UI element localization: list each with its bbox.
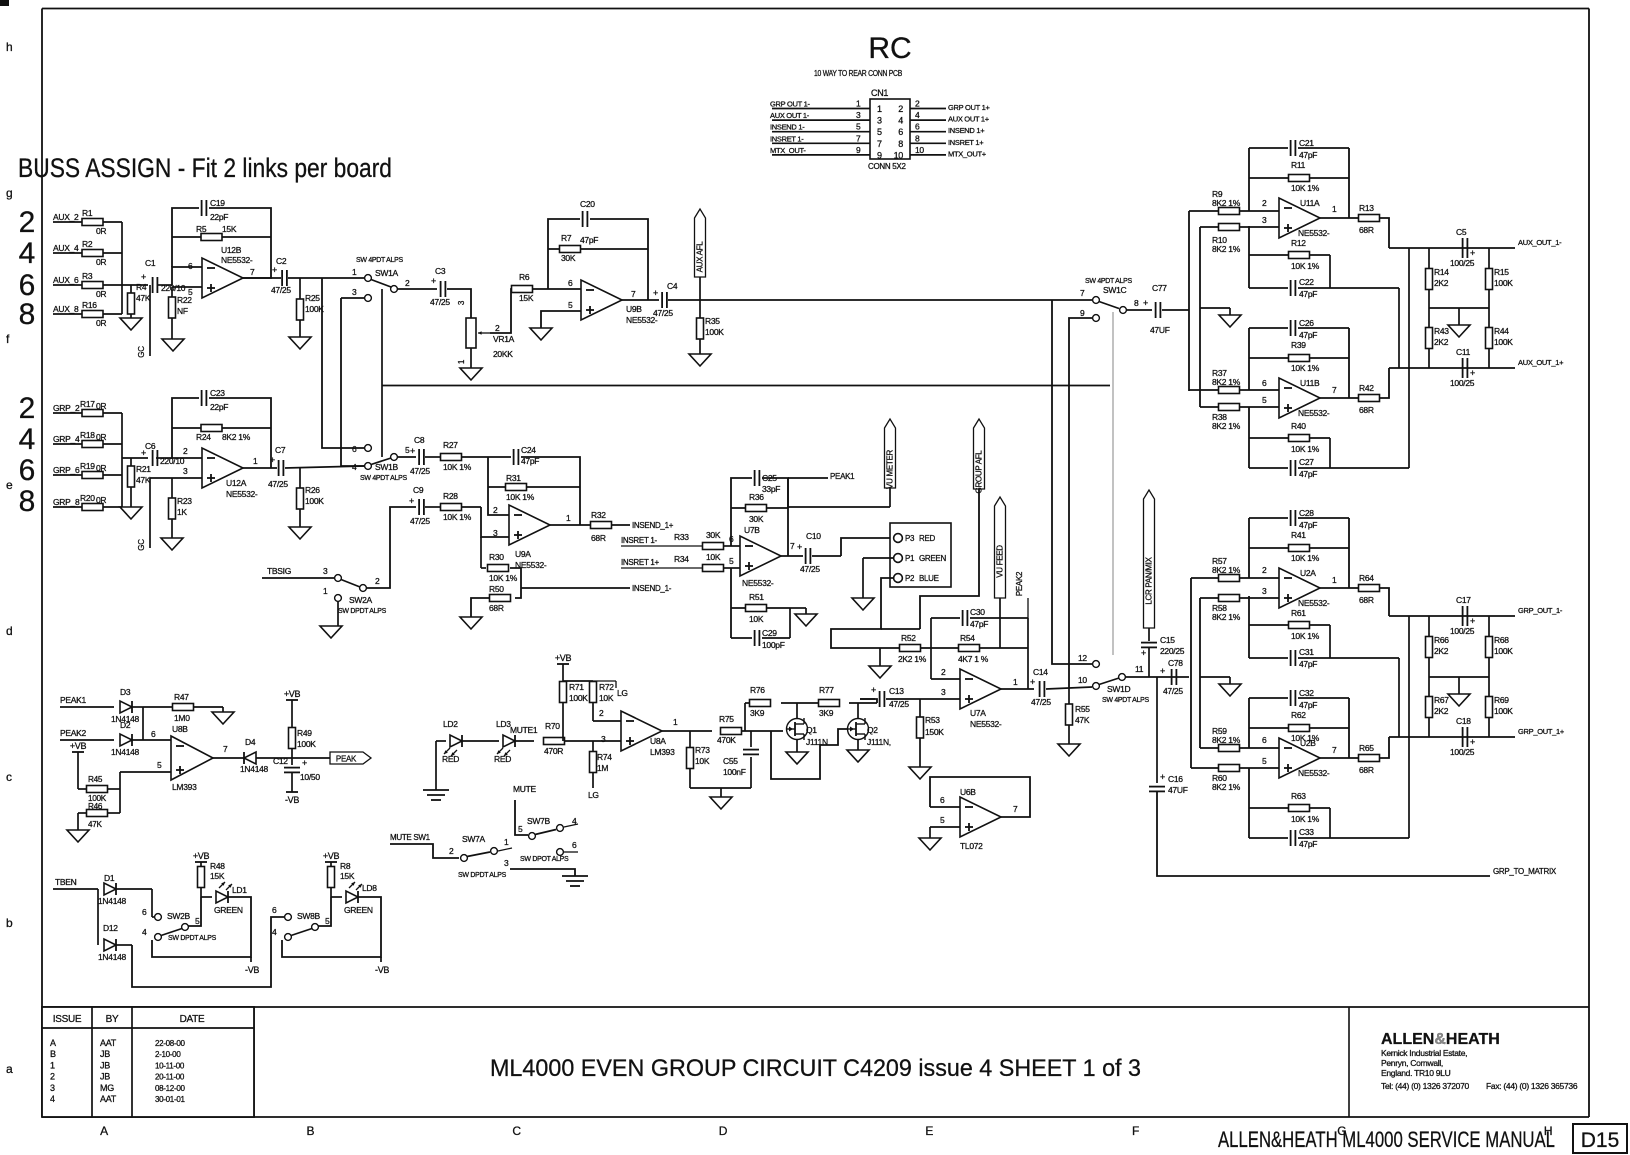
resistor R66: [1426, 616, 1450, 677]
svg-text:U8B: U8B: [172, 724, 188, 734]
resistor R15: [1486, 248, 1514, 308]
svg-text:R55: R55: [1075, 704, 1090, 714]
svg-text:GREEN: GREEN: [214, 905, 243, 915]
svg-text:+: +: [1160, 666, 1165, 676]
svg-text:R32: R32: [591, 510, 606, 520]
wire U8B output: [212, 757, 244, 759]
svg-text:3: 3: [601, 734, 606, 744]
svg-text:3: 3: [457, 300, 466, 305]
svg-text:D: D: [719, 1124, 728, 1138]
title RC: [868, 32, 911, 65]
svg-text:3: 3: [183, 466, 188, 476]
svg-text:2: 2: [183, 446, 188, 456]
resistor R73: [687, 731, 711, 788]
op-amp U8B: [171, 724, 228, 792]
svg-text:6: 6: [188, 261, 193, 271]
svg-text:R26: R26: [305, 485, 320, 495]
svg-text:47/25: 47/25: [271, 285, 291, 295]
GRP bus digits 2 4 6 8: [19, 392, 36, 518]
svg-text:NE5532-: NE5532-: [1298, 768, 1330, 778]
svg-text:R75: R75: [719, 714, 734, 724]
svg-text:100pF: 100pF: [762, 640, 785, 650]
CN1 pin 2 wire: [910, 99, 990, 113]
svg-text:1N4148: 1N4148: [98, 952, 127, 962]
svg-text:Q2: Q2: [867, 725, 878, 735]
svg-text:68R: 68R: [591, 533, 606, 543]
svg-text:2K2: 2K2: [1434, 337, 1449, 347]
issue table: [42, 1007, 254, 1117]
grid letters left: [6, 40, 13, 1076]
svg-text:MG: MG: [100, 1083, 114, 1093]
svg-text:TBSIG: TBSIG: [267, 566, 291, 576]
svg-text:LCR PAN/MIX: LCR PAN/MIX: [1145, 556, 1154, 604]
wire pin3 node to R30: [481, 537, 486, 568]
resistor R45: [78, 775, 120, 803]
wire GROUP AFL down: [920, 489, 979, 629]
svg-text:P2: P2: [905, 574, 915, 583]
svg-text:6: 6: [19, 454, 36, 487]
svg-text:11: 11: [1135, 664, 1144, 674]
resistor R13: [1359, 203, 1380, 235]
CN1 footprint label: [868, 162, 906, 171]
svg-text:SW1C: SW1C: [1103, 285, 1127, 295]
title BUSS ASSIGN: [18, 153, 392, 183]
resistor R48: [198, 861, 226, 897]
svg-text:3: 3: [1262, 586, 1267, 596]
svg-text:R65: R65: [1359, 743, 1374, 753]
svg-text:10K: 10K: [599, 693, 614, 703]
op-amp U6B: [960, 787, 1018, 851]
svg-text:JB: JB: [100, 1060, 110, 1070]
net wire PEAK1: [60, 695, 114, 707]
svg-text:6: 6: [352, 444, 357, 454]
svg-text:P3: P3: [905, 534, 915, 543]
svg-text:3: 3: [1262, 215, 1267, 225]
svg-text:d: d: [6, 624, 12, 638]
svg-text:6: 6: [940, 795, 945, 805]
svg-text:Penryn, Cornwall,: Penryn, Cornwall,: [1381, 1058, 1443, 1068]
op-amp U11B feedback C26 R39: [1249, 318, 1349, 398]
feedback R12 C22: [1249, 226, 1399, 288]
wire Q1 drain: [796, 703, 798, 718]
svg-text:C55: C55: [723, 756, 738, 766]
svg-text:C15: C15: [1160, 635, 1175, 645]
svg-text:8K2 1%: 8K2 1%: [1212, 782, 1241, 792]
svg-text:10K 1%: 10K 1%: [1291, 631, 1320, 641]
svg-text:PEAK2: PEAK2: [1015, 571, 1024, 596]
svg-text:Q1: Q1: [806, 725, 817, 735]
svg-text:SW7B: SW7B: [527, 816, 551, 826]
svg-text:SW2A: SW2A: [349, 595, 373, 605]
svg-text:15K: 15K: [222, 224, 237, 234]
sheet number D15: [1573, 1124, 1627, 1153]
svg-text:47pF: 47pF: [1299, 659, 1317, 669]
svg-text:U11B: U11B: [1300, 378, 1320, 388]
feedback loop U7B: [731, 478, 788, 556]
diode D3: [111, 687, 143, 724]
svg-text:3: 3: [50, 1083, 55, 1093]
svg-text:-VB: -VB: [375, 965, 389, 975]
svg-text:A: A: [100, 1124, 108, 1138]
svg-text:10 WAY TO REAR CONN PCB: 10 WAY TO REAR CONN PCB: [814, 69, 902, 78]
svg-text:R27: R27: [443, 440, 458, 450]
svg-text:6: 6: [572, 840, 577, 850]
svg-text:J111N,: J111N,: [867, 737, 891, 747]
op-amp U7A: [960, 669, 1018, 729]
AUX bus digits 2 4 6 8: [19, 206, 36, 331]
CN1 pin 9 wire: [770, 145, 870, 155]
svg-text:47K: 47K: [136, 293, 151, 303]
svg-text:7: 7: [250, 267, 255, 277]
net wire TBEN: [53, 877, 98, 889]
svg-text:47/25: 47/25: [410, 516, 430, 526]
svg-text:+VB: +VB: [284, 689, 301, 699]
wire C16 branch: [1156, 677, 1158, 783]
svg-text:1: 1: [877, 104, 882, 114]
svg-text:15K: 15K: [210, 871, 225, 881]
svg-text:C8: C8: [414, 435, 425, 445]
svg-text:AUX_OUT_1-: AUX_OUT_1-: [1518, 238, 1562, 247]
svg-text:GROUP AFL: GROUP AFL: [975, 450, 984, 494]
svg-text:SW 4PDT ALPS: SW 4PDT ALPS: [1085, 278, 1132, 285]
svg-text:C4: C4: [667, 281, 678, 291]
svg-text:R72: R72: [599, 682, 614, 692]
svg-text:47/25: 47/25: [430, 297, 450, 307]
resistor R57: [1191, 556, 1279, 582]
feedback R40 C27: [1249, 407, 1409, 468]
op-amp U11A: [1279, 198, 1337, 238]
svg-text:D4: D4: [245, 737, 256, 747]
svg-text:30-01-01: 30-01-01: [155, 1095, 185, 1104]
switch SW1B: [352, 444, 410, 482]
wire U12A pin3: [150, 446, 202, 478]
svg-text:R74: R74: [597, 752, 612, 762]
CN1 pin 10 wire: [910, 145, 987, 159]
svg-text:SW DPDT ALPS: SW DPDT ALPS: [458, 872, 507, 879]
capacitor C33: [1288, 827, 1317, 849]
ground below P1 wire: [852, 598, 874, 610]
svg-text:U6B: U6B: [960, 787, 976, 797]
svg-text:2: 2: [375, 576, 380, 586]
svg-text:100/25: 100/25: [1450, 378, 1475, 388]
resistor R32: [591, 510, 631, 543]
svg-text:100/25: 100/25: [1450, 258, 1475, 268]
svg-text:+: +: [1470, 248, 1475, 258]
switch SW7B: [518, 816, 578, 863]
resistor R28: [441, 491, 482, 522]
wire SW8B common up: [318, 897, 331, 926]
svg-text:100K: 100K: [305, 496, 324, 506]
svg-text:100/25: 100/25: [1450, 747, 1475, 757]
svg-text:D2: D2: [120, 720, 131, 730]
flag LCR PAN/MIX: [1144, 490, 1155, 641]
resistor R6: [512, 272, 582, 303]
resistor R35: [697, 300, 725, 354]
svg-text:R31: R31: [506, 473, 521, 483]
svg-text:SW DPDT ALPS: SW DPDT ALPS: [338, 608, 387, 615]
capacitor C16: [1149, 772, 1188, 795]
svg-text:47/25: 47/25: [1031, 697, 1051, 707]
svg-text:R77: R77: [819, 685, 834, 695]
svg-text:1: 1: [457, 359, 466, 364]
resistor R50: [489, 584, 511, 613]
svg-text:R63: R63: [1291, 791, 1306, 801]
LED LD1: [201, 882, 247, 915]
svg-text:RED: RED: [494, 754, 511, 764]
svg-text:100K: 100K: [297, 739, 316, 749]
capacitor C3: [430, 266, 450, 307]
wire SW1A pin3 link to SW1B pin4: [341, 298, 364, 466]
svg-text:6: 6: [142, 907, 147, 917]
svg-text:U9A: U9A: [515, 549, 531, 559]
wire SW7A pin3 to earth: [510, 869, 575, 876]
svg-text:6: 6: [272, 905, 277, 915]
ground below U6B pin5: [919, 838, 941, 850]
power -VB below C12: [285, 792, 299, 805]
svg-text:JB: JB: [100, 1072, 110, 1082]
svg-text:GRP_TO_MATRIX: GRP_TO_MATRIX: [1493, 867, 1557, 876]
wire C4 to SW1C pin7: [668, 299, 1092, 301]
ground below R46: [67, 813, 89, 842]
svg-text:CONN 5X2: CONN 5X2: [868, 162, 906, 171]
switch SW1D: [1078, 661, 1149, 704]
svg-text:R16: R16: [82, 300, 97, 310]
svg-text:68R: 68R: [1359, 225, 1374, 235]
svg-text:R46: R46: [88, 802, 103, 811]
svg-text:47pF: 47pF: [1299, 520, 1317, 530]
svg-text:+: +: [272, 265, 277, 275]
wire C1 to U12B pin6: [172, 267, 202, 285]
svg-text:R44: R44: [1494, 326, 1509, 336]
svg-text:+: +: [270, 455, 275, 465]
transistor Q2: [848, 718, 891, 747]
wire U2A output: [1320, 587, 1358, 589]
svg-text:NF: NF: [177, 306, 188, 316]
wire U8A output: [662, 725, 712, 731]
resistor R47: [143, 692, 223, 723]
svg-text:2: 2: [449, 846, 454, 856]
diode D2: [111, 720, 171, 757]
power +VB for R8: [323, 851, 340, 867]
svg-text:+: +: [302, 758, 307, 768]
power +VB for R45: [70, 741, 87, 789]
svg-text:AUX AFL: AUX AFL: [696, 241, 705, 273]
power +VB mute: [555, 653, 572, 681]
resistor R24: [196, 425, 251, 443]
svg-text:9: 9: [856, 145, 861, 155]
switch SW7A: [458, 834, 512, 879]
svg-text:10/50: 10/50: [300, 772, 320, 782]
svg-text:4: 4: [19, 423, 36, 456]
svg-text:R45: R45: [88, 775, 103, 784]
flag AUX AFL: [695, 209, 706, 300]
wire R28 to U9A pin3: [481, 507, 509, 537]
svg-text:f: f: [6, 332, 10, 346]
net wire INSRET 1+: [621, 558, 703, 568]
resistor R67: [1426, 677, 1450, 737]
labels R9 R10: [1212, 189, 1241, 254]
svg-text:INSEND_1-: INSEND_1-: [632, 584, 672, 593]
svg-text:MTX_OUT+: MTX_OUT+: [948, 149, 987, 158]
resistor R16 (AUX_8 input): [53, 300, 122, 328]
svg-text:GC: GC: [137, 346, 146, 358]
svg-text:TL072: TL072: [960, 841, 983, 851]
ground right of R47: [212, 707, 234, 724]
svg-text:D12: D12: [103, 923, 118, 933]
capacitor C10: [797, 531, 821, 574]
net wire PEAK2: [60, 728, 114, 740]
capacitor C78: [1160, 658, 1183, 696]
svg-text:68R: 68R: [1359, 765, 1374, 775]
svg-text:C31: C31: [1299, 647, 1314, 657]
svg-text:9: 9: [877, 150, 882, 160]
svg-text:47pF: 47pF: [521, 456, 539, 466]
capacitor C55: [723, 731, 759, 788]
svg-text:ML4000 EVEN GROUP CIRCUIT C4: ML4000 EVEN GROUP CIRCUIT C4209 issue 4 …: [490, 1055, 1141, 1082]
svg-text:C78: C78: [1168, 658, 1183, 668]
wire U7A output: [1001, 598, 1034, 689]
capacitor C19: [199, 198, 228, 222]
wire to Q2 gate: [771, 729, 848, 779]
svg-text:R30: R30: [489, 552, 504, 562]
svg-text:0R: 0R: [96, 463, 106, 473]
svg-text:Kernick Industrial Estate,: Kernick Industrial Estate,: [1381, 1048, 1467, 1058]
svg-text:C14: C14: [1033, 667, 1048, 677]
wire C31 to plus rail: [1398, 658, 1400, 737]
svg-text:12: 12: [1078, 653, 1087, 663]
svg-text:C77: C77: [1152, 283, 1167, 293]
svg-text:P1: P1: [905, 554, 915, 563]
svg-text:C10: C10: [806, 531, 821, 541]
svg-text:NE5532-: NE5532-: [970, 719, 1002, 729]
svg-text:BY: BY: [106, 1014, 119, 1025]
svg-text:5: 5: [188, 287, 193, 297]
svg-text:47pF: 47pF: [1299, 289, 1317, 299]
svg-text:47/25: 47/25: [653, 308, 673, 318]
svg-text:b: b: [6, 916, 13, 930]
net wire INSRET 1-: [621, 536, 703, 546]
svg-text:+: +: [141, 448, 146, 458]
resistor R36: [746, 492, 767, 524]
resistor R26: [297, 467, 325, 527]
svg-text:C21: C21: [1299, 138, 1314, 148]
svg-text:U2A: U2A: [1300, 568, 1316, 578]
svg-text:GRP_OUT_1-: GRP_OUT_1-: [1518, 606, 1563, 615]
wire U6B pin5: [930, 815, 960, 838]
resistor R59: [1200, 726, 1279, 752]
svg-text:+VB: +VB: [70, 741, 87, 751]
svg-text:LG: LG: [617, 688, 628, 698]
svg-text:+: +: [409, 496, 414, 506]
svg-text:3K9: 3K9: [750, 708, 765, 718]
svg-text:10K 1%: 10K 1%: [1291, 183, 1320, 193]
svg-text:2: 2: [405, 278, 410, 288]
wire U12B output: [243, 277, 281, 279]
svg-text:+: +: [431, 276, 436, 286]
svg-text:C28: C28: [1299, 508, 1314, 518]
svg-text:LM393: LM393: [172, 782, 197, 792]
svg-text:LD2: LD2: [443, 719, 458, 729]
ground below R53: [909, 767, 931, 779]
svg-text:AUX OUT 1-: AUX OUT 1-: [770, 111, 810, 120]
wire LD1 to -VB loop: [152, 897, 251, 957]
svg-text:U9B: U9B: [626, 304, 642, 314]
capacitor C9: [409, 485, 440, 526]
svg-text:LD3: LD3: [496, 719, 511, 729]
svg-text:10: 10: [894, 150, 904, 160]
svg-text:1M0: 1M0: [174, 713, 190, 723]
svg-text:4: 4: [915, 110, 920, 120]
earth ground SW7A: [562, 876, 588, 886]
power -VB tag SW2B: [245, 957, 259, 975]
resistor R49: [289, 728, 317, 759]
svg-text:C7: C7: [275, 445, 286, 455]
svg-text:8K2 1%: 8K2 1%: [1212, 735, 1241, 745]
svg-text:0R: 0R: [96, 226, 106, 236]
op-amp U7B: [740, 525, 795, 588]
svg-text:+: +: [1030, 677, 1035, 687]
rail GRP_OUT_1+: [1389, 727, 1565, 737]
op-amp U9A: [493, 505, 571, 570]
svg-text:R61: R61: [1291, 608, 1306, 618]
svg-text:C19: C19: [210, 198, 225, 208]
svg-text:10K 1%: 10K 1%: [443, 462, 472, 472]
resistor R19 (GRP_6 input): [53, 461, 122, 479]
wire P1 to ground: [863, 558, 894, 598]
resistor R63: [1289, 791, 1320, 824]
wire C3 to VR1A: [447, 289, 471, 318]
svg-text:R25: R25: [305, 293, 320, 303]
switch SW2A wire TBSIG: [262, 566, 334, 578]
svg-text:R66: R66: [1434, 635, 1449, 645]
svg-text:BLUE: BLUE: [919, 574, 939, 583]
capacitor C13: [860, 685, 960, 709]
LED connector box: [890, 523, 951, 587]
resistor R34: [674, 552, 740, 572]
net label MUTE1: [510, 725, 538, 735]
svg-text:U2B: U2B: [1300, 738, 1316, 748]
feedback loop U9A: [488, 457, 580, 525]
svg-text:MTX_OUT-: MTX_OUT-: [770, 146, 806, 155]
wire C33 to minus rail: [1408, 616, 1410, 838]
svg-text:C13: C13: [889, 686, 904, 696]
net label PEAK2: [1015, 571, 1024, 596]
svg-text:2: 2: [915, 99, 920, 109]
svg-text:8K2 1%: 8K2 1%: [222, 432, 251, 442]
svg-text:2: 2: [495, 323, 500, 333]
svg-text:47UF: 47UF: [1150, 325, 1170, 335]
CN1 pin 8 wire: [910, 133, 984, 147]
resistor R71: [560, 682, 589, 742]
svg-text:R11: R11: [1291, 160, 1306, 170]
svg-text:470K: 470K: [717, 735, 736, 745]
ground between stages (AUX): [1200, 308, 1241, 327]
svg-text:-VB: -VB: [245, 965, 259, 975]
ground between stages (GRP): [1200, 677, 1241, 696]
svg-text:GREEN: GREEN: [919, 554, 946, 563]
svg-text:+: +: [871, 685, 876, 695]
wire VU METER to output node: [788, 478, 890, 507]
svg-text:R7: R7: [561, 233, 572, 243]
LED LD2: [436, 719, 499, 764]
CN1 pin 4 wire: [910, 110, 990, 124]
capacitor C25: [752, 470, 780, 494]
wire U8B pin5: [120, 760, 171, 772]
ground below R21: [120, 507, 142, 519]
svg-text:1: 1: [1013, 677, 1018, 687]
capacitor C22: [1288, 277, 1317, 299]
resistor R46: [78, 802, 120, 829]
